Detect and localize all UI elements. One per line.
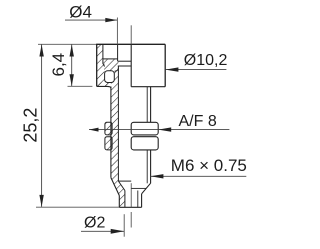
barrel wall section (hatched) (111, 87, 125, 208)
bore inner wall (117, 66, 119, 181)
tube outer left (118, 196, 120, 208)
svg-text:A/F 8: A/F 8 (179, 113, 217, 130)
dimension 6,4 line (71, 45, 73, 87)
svg-text:M6 × 0.75: M6 × 0.75 (171, 156, 247, 175)
dimension Ø2 arrow (111, 229, 125, 234)
dimension 25,2 line (41, 45, 43, 207)
tube inner left (124, 191, 126, 208)
centerline in tube zone (130, 183, 132, 207)
tube inner right (137, 191, 139, 208)
dimension 6,4 arrow up (70, 45, 74, 57)
label A/F 8 leader line (89, 129, 229, 131)
svg-text:Ø2: Ø2 (84, 215, 105, 232)
white notch (air gap) (105, 71, 115, 83)
cone inner left (118, 181, 125, 190)
dimension Ø10,2 arrow (165, 67, 178, 71)
insulator inner top wall (102, 44, 104, 59)
svg-text:6,4: 6,4 (49, 53, 68, 77)
barrel right thread line outer lower (150, 150, 152, 183)
label A/F 8 arrow right (158, 127, 171, 131)
metal body section (hatched) (103, 59, 119, 71)
bottom extension line (36, 206, 119, 208)
tube outer right (141, 194, 143, 208)
hex wing left 2 (hatched) (105, 137, 112, 150)
cone outer left (111, 178, 119, 196)
insulator head section (hatched) (97, 44, 111, 86)
cone right (142, 183, 151, 194)
head centerline boundary (130, 44, 132, 86)
dimension Ø4 line (65, 19, 117, 21)
bore floor (118, 180, 131, 182)
dimension 25,2 arrow down (39, 195, 43, 207)
barrel right thread line inner lower (146, 150, 148, 183)
dimension 6,4 arrow down (70, 74, 74, 86)
tube bottom (119, 206, 141, 208)
flange outline (103, 59, 105, 67)
hex block right 1 (131, 122, 158, 135)
barrel right thread line inner upper (146, 87, 148, 123)
label M6 arrow (150, 174, 163, 178)
head bottom extension line (68, 85, 93, 87)
hole left wall (117, 44, 119, 61)
hex block right 2 (131, 137, 158, 150)
dimension Ø4 arrow (105, 18, 117, 22)
label M6 leader line (150, 175, 246, 177)
svg-text:Ø4: Ø4 (69, 3, 92, 22)
hex wing left 1 (hatched) (105, 122, 112, 135)
top face of part (96, 43, 165, 45)
dimension 25,2 arrow up (39, 45, 43, 57)
inner ledge (118, 65, 131, 67)
barrel outer left wall (110, 87, 112, 178)
ring line right (131, 187, 146, 189)
dimension Ø4 extension line (116, 18, 118, 45)
svg-text:25,2: 25,2 (20, 108, 40, 143)
dimension Ø10,2 line (165, 69, 226, 71)
head left wall (96, 44, 98, 86)
recess floor (103, 58, 118, 60)
head bottom left (97, 86, 111, 88)
centerline above part (130, 25, 132, 44)
flange bottom curve (115, 68, 119, 71)
centerline below part (130, 212, 132, 228)
insulator lip below notch (97, 83, 111, 87)
dimension Ø2 extension line (123, 214, 125, 237)
head bottom right (131, 86, 165, 88)
top face (extension part, thin) (38, 43, 97, 45)
hole bottom (118, 60, 132, 62)
head right edge (164, 44, 166, 86)
metal wall strip under flange (111, 71, 119, 86)
label A/F 8 arrow left (89, 128, 99, 132)
svg-text:Ø10,2: Ø10,2 (184, 52, 228, 69)
dimension Ø2 line (81, 230, 124, 232)
barrel right thread line outer upper (150, 87, 152, 123)
